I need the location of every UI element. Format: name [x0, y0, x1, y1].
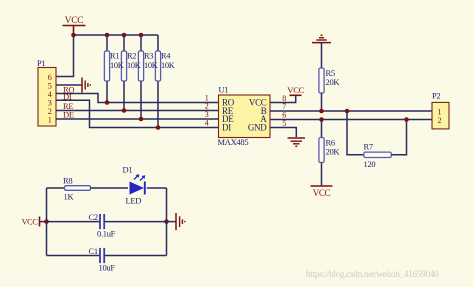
- svg-text:P2: P2: [432, 91, 440, 101]
- wire U1 pin5 to ground: [270, 128, 296, 138]
- power VCC top-left: [63, 15, 86, 35]
- node junction R3-line3: [139, 117, 144, 122]
- wire top branch left: [47, 187, 65, 189]
- power VCC below R6: [311, 186, 333, 198]
- svg-text:R3: R3: [144, 52, 153, 61]
- wire RE: P1 pin2 to U1 pin2: [56, 110, 219, 112]
- node junction left rail: [44, 219, 49, 224]
- svg-text:R2: R2: [127, 52, 136, 61]
- wire ground to R5: [321, 43, 323, 68]
- svg-text:120: 120: [364, 159, 376, 169]
- wire bottom branch left: [47, 255, 101, 257]
- wire VCC to left rail: [40, 221, 47, 223]
- power VCC at U1 pin8: [287, 85, 304, 95]
- ground at U1 pin5: [288, 138, 306, 146]
- node junction R5-B: [319, 109, 324, 114]
- svg-text:10K: 10K: [110, 61, 124, 70]
- svg-text:1: 1: [48, 116, 52, 125]
- ground top-right: [312, 35, 331, 42]
- node junction R7-B: [345, 109, 350, 114]
- resistor R3 10K: [138, 35, 143, 119]
- wire U1 pin6 A line to P2 pin2: [270, 119, 432, 121]
- resistor R2 10K: [121, 35, 126, 111]
- svg-text:VCC: VCC: [313, 188, 331, 198]
- capacitor C2 0.1uF: [89, 212, 116, 239]
- svg-text:GND: GND: [248, 123, 267, 133]
- resistor R4 10K: [155, 35, 160, 128]
- wire middle branch left: [47, 221, 101, 223]
- node junction rail-R3: [139, 33, 144, 38]
- svg-text:1K: 1K: [64, 192, 75, 202]
- wire VCC stem to P1 pin6: [56, 35, 74, 77]
- wire LED to right rail: [147, 187, 167, 189]
- connector P1: [37, 58, 56, 126]
- svg-text:10uF: 10uF: [99, 263, 116, 273]
- svg-text:2: 2: [438, 116, 442, 125]
- wire RO: P1 pin4 to U1 pin1: [56, 94, 219, 103]
- wire VCC rail: [74, 34, 159, 36]
- svg-text:P1: P1: [37, 58, 45, 68]
- connector P2: [432, 91, 449, 129]
- ground at P1 pin5: [82, 78, 90, 93]
- svg-text:MAX485: MAX485: [218, 137, 249, 147]
- node junction right rail: [164, 219, 169, 224]
- wire DI: P1 pin3 to U1 pin4: [56, 100, 219, 127]
- wire left rail: [46, 188, 48, 256]
- wire P1 pin5 to ground: [56, 84, 82, 86]
- svg-text:LED: LED: [126, 195, 142, 205]
- svg-text:20K: 20K: [326, 147, 341, 157]
- node junction R1-line1: [105, 100, 110, 105]
- resistor R6 20K: [319, 120, 341, 187]
- node junction R6-A: [319, 117, 324, 122]
- node junction rail-R1: [105, 33, 110, 38]
- wire U1 pin7 B line to P2 pin1: [270, 110, 432, 112]
- svg-text:1: 1: [438, 107, 442, 116]
- svg-text:VCC: VCC: [287, 85, 304, 95]
- wire right rail to ground: [167, 221, 177, 223]
- resistor R7 120 termination: [347, 111, 407, 169]
- LED D1: [123, 165, 146, 206]
- wire right rail: [166, 188, 168, 256]
- op-amp U1 MAX485: [218, 85, 271, 148]
- wire R8 to LED: [91, 187, 129, 189]
- svg-text:R4: R4: [161, 52, 171, 61]
- svg-text:C2: C2: [89, 212, 98, 222]
- node junction R4-line4: [156, 125, 161, 130]
- ground bottom-right of LED block: [176, 213, 185, 230]
- power VCC bottom-left: [22, 217, 40, 227]
- node junction R7-A: [404, 117, 409, 122]
- svg-text:0.1uF: 0.1uF: [97, 229, 116, 239]
- node junction rail-R2: [122, 33, 127, 38]
- wire DE: P1 pin1 to U1 pin3: [56, 118, 219, 120]
- svg-text:https://blog.csdn.net/weixin_4: https://blog.csdn.net/weixin_41659040: [306, 269, 439, 279]
- svg-text:R7: R7: [364, 142, 373, 152]
- svg-text:10K: 10K: [144, 61, 158, 70]
- wire U1 pin8 to VCC: [270, 96, 296, 103]
- svg-text:10K: 10K: [127, 61, 141, 70]
- svg-text:D1: D1: [123, 165, 133, 175]
- svg-text:R1: R1: [110, 52, 119, 61]
- svg-text:VCC: VCC: [65, 15, 84, 26]
- node junction rail-P1: [71, 33, 76, 38]
- svg-text:20K: 20K: [326, 77, 341, 87]
- svg-text:DI: DI: [222, 123, 231, 133]
- node junction R2-line2: [122, 108, 127, 113]
- svg-text:10K: 10K: [161, 61, 175, 70]
- resistor R8 1K: [63, 176, 91, 202]
- svg-text:C1: C1: [89, 246, 98, 256]
- svg-text:VCC: VCC: [22, 217, 39, 226]
- svg-text:DE: DE: [63, 109, 74, 119]
- svg-text:U1: U1: [219, 85, 229, 95]
- resistor R1 10K: [104, 35, 109, 103]
- capacitor C1 10uF: [89, 246, 116, 273]
- wire bottom branch right: [104, 255, 166, 257]
- resistor R5 20K: [319, 68, 341, 111]
- svg-text:4: 4: [205, 118, 209, 127]
- wire middle branch right: [104, 221, 166, 223]
- svg-text:R8: R8: [63, 176, 72, 186]
